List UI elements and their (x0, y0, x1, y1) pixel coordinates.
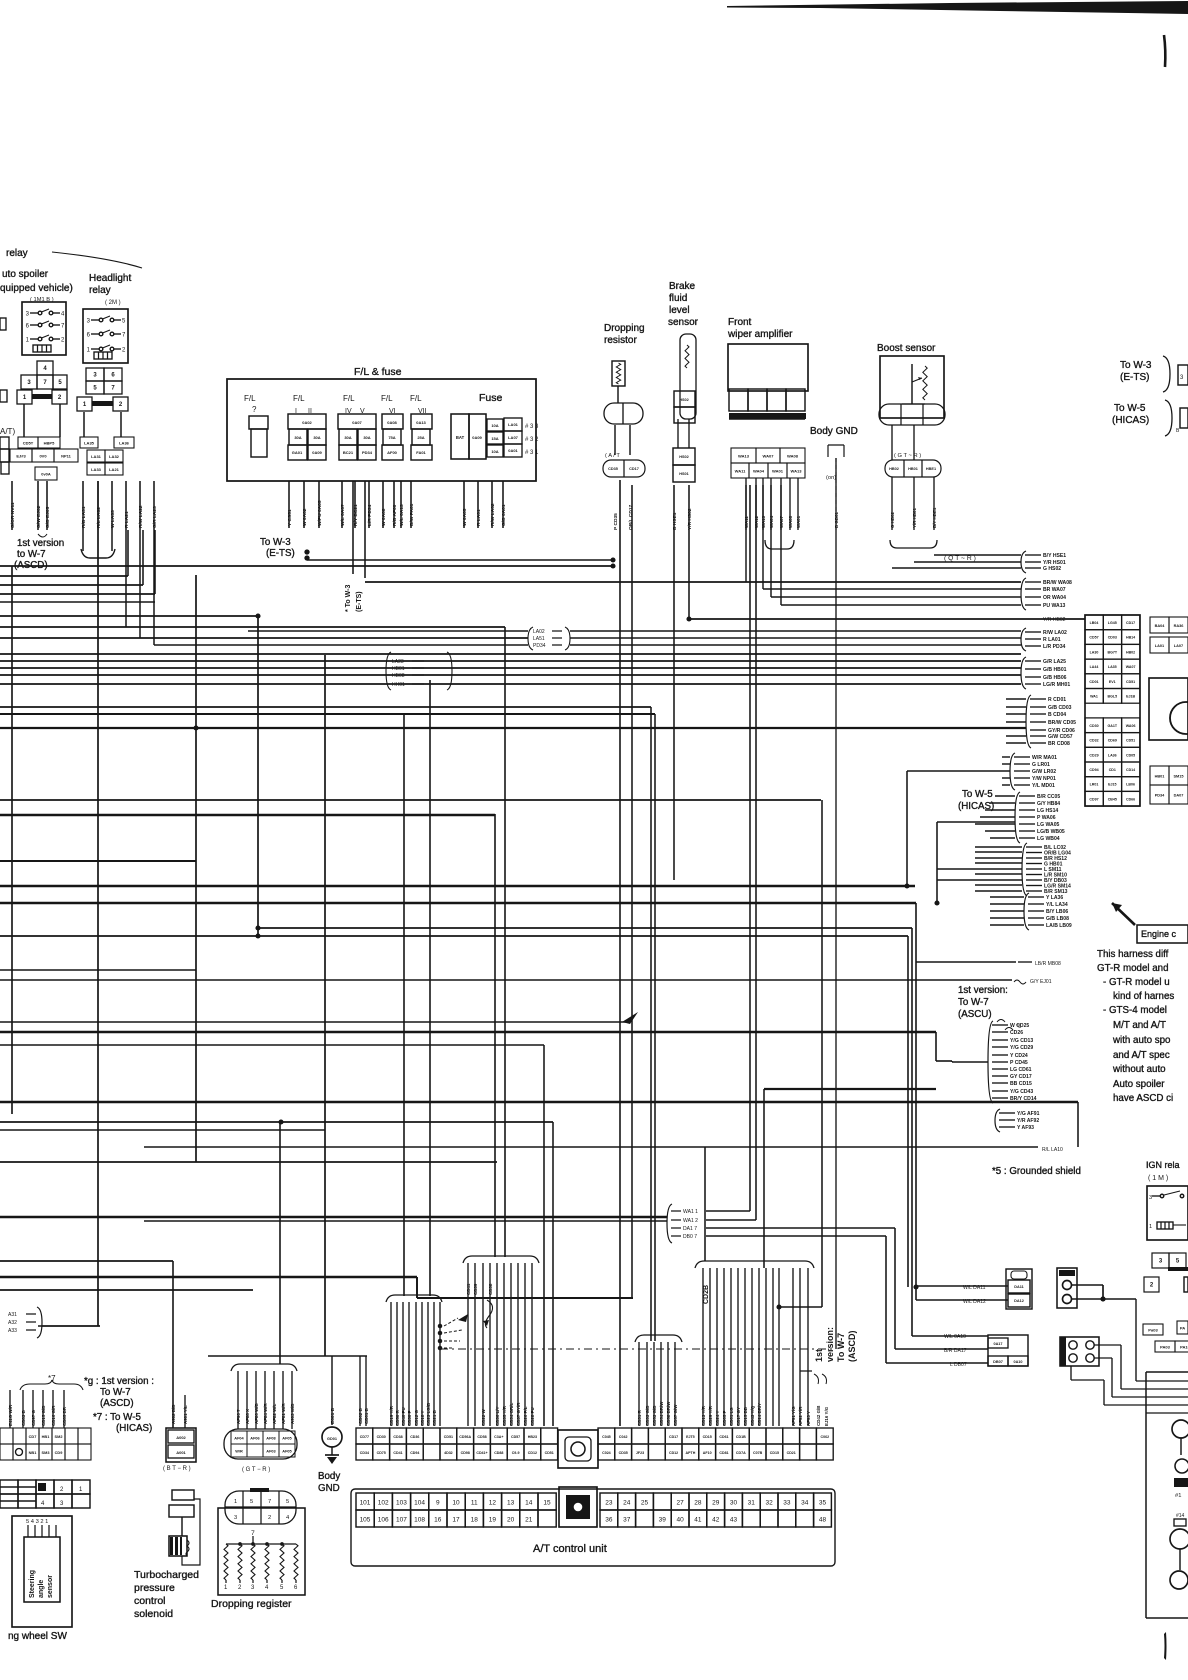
svg-text:CD29: CD29 (1089, 753, 1098, 757)
svg-text:CD41+: CD41+ (476, 1451, 487, 1455)
svg-text:CD30 P: CD30 P (407, 1410, 412, 1426)
svg-text:W/L DA12: W/L DA12 (963, 1299, 986, 1305)
svg-text:AF92 Y/R: AF92 Y/R (798, 1406, 803, 1426)
svg-text:W 0A02: W 0A02 (302, 508, 308, 526)
svg-text:DA1 7: DA1 7 (683, 1226, 697, 1232)
wire V x=143 (142, 530, 144, 585)
svg-text:CD05: CD05 (1126, 753, 1135, 757)
svg-text:Body GND: Body GND (810, 426, 858, 437)
svg-text:CD2B: CD2B (703, 1285, 710, 1304)
wire H y=885 (975, 884, 1022, 886)
svg-text:HS02: HS02 (679, 455, 689, 459)
wire H y=861 (0, 860, 196, 862)
svg-text:HB01: HB01 (908, 467, 918, 471)
svg-text:A/T control unit: A/T control unit (533, 1543, 607, 1555)
svg-text:LG WA05: LG WA05 (1037, 822, 1060, 828)
wire H y=1211 (706, 1210, 750, 1212)
svg-text:5: 5 (286, 1499, 289, 1505)
svg-text:CD57: CD57 (1089, 636, 1098, 640)
svg-text:A902 B/B: A902 B/B (171, 1405, 176, 1424)
connector strip CD row 1 and 2 (356, 1428, 373, 1444)
svg-text:AF86 W/B: AF86 W/B (254, 1403, 259, 1424)
svg-text:( 2M ): ( 2M ) (105, 300, 121, 306)
svg-text:AF10: AF10 (703, 1451, 712, 1455)
svg-text:Y/R HB02: Y/R HB02 (1043, 617, 1066, 623)
svg-text:C9-9: C9-9 (512, 1451, 520, 1455)
svg-text:14: 14 (525, 1500, 533, 1507)
svg-text:LA23: LA23 (392, 659, 404, 665)
cable bundle 4 pins (702, 1268, 704, 1426)
svg-text:CD94: CD94 (1089, 768, 1098, 772)
svg-text:F/L: F/L (244, 394, 256, 403)
svg-text:To W-3: To W-3 (260, 537, 291, 548)
wire H y=970 (0, 969, 196, 971)
wire wiper amp pins (745, 478, 747, 530)
svg-text:(HICAS): (HICAS) (958, 801, 994, 812)
svg-text:PA03: PA03 (1160, 1344, 1171, 1349)
wire H y=1326 (38, 1325, 100, 1327)
svg-text:RA36: RA36 (1174, 624, 1184, 628)
wire H y=847 (975, 846, 1022, 848)
svg-text:CD94: CD94 (410, 1451, 419, 1455)
wire H y=936 (0, 935, 908, 937)
stub wires with labels below F/L and fuse box (288, 481, 290, 528)
svg-text:CD38: CD38 (393, 1435, 402, 1439)
wire H y=736 (1006, 735, 1026, 737)
svg-text:CD14: CD14 (1126, 768, 1135, 772)
svg-text:A31: A31 (8, 1312, 17, 1318)
svg-text:B/Y HSE1: B/Y HSE1 (1043, 553, 1066, 559)
svg-text:Turbocharged: Turbocharged (134, 1569, 199, 1581)
wire H y=631 (570, 630, 1021, 632)
wire H y=800 (0, 799, 821, 801)
svg-text:HB14: HB14 (1126, 636, 1135, 640)
wire group WA08/WA07/WA04/WA13 (1021, 578, 1026, 610)
svg-text:W 0A05: W 0A05 (462, 508, 468, 526)
svg-text:WA1 2: WA1 2 (683, 1218, 698, 1224)
wire H y=757 (1002, 756, 1010, 758)
wire pins E41G..CD85 bottom left (9, 1390, 11, 1428)
wire H y=778 (1002, 777, 1010, 779)
scan artifact tick top right (1164, 35, 1165, 67)
svg-text:17: 17 (452, 1517, 460, 1524)
svg-text:CD16 G/R: CD16 G/R (51, 1405, 56, 1426)
svg-text:15: 15 (543, 1500, 551, 1507)
wire H y=903 (0, 902, 916, 905)
svg-text:( 1 M ): ( 1 M ) (1148, 1175, 1168, 1182)
wire H y=1089 (764, 1088, 936, 1090)
relay K3 IGN relay box (1147, 1186, 1188, 1240)
svg-text:CD12 G: CD12 G (414, 1409, 419, 1426)
svg-text:*g : 1st version :: *g : 1st version : (84, 1376, 154, 1387)
cable bracket over AF pins (231, 1364, 297, 1371)
svg-text:G/B LB08: G/B LB08 (1046, 916, 1069, 922)
black connector bar (1174, 1478, 1188, 1487)
svg-text:LG HS14: LG HS14 (1037, 808, 1058, 814)
shield hook symbols (458, 1314, 468, 1322)
cable bundle 3 pins (638, 1342, 640, 1426)
svg-text:30A: 30A (363, 435, 370, 440)
wire V x=553 (552, 1122, 554, 1426)
svg-text:CD54 BR/W: CD54 BR/W (659, 1401, 664, 1426)
wire V x=763 (762, 485, 764, 589)
svg-text:AF96 7: AF96 7 (236, 1409, 241, 1424)
svg-text:relay: relay (6, 248, 28, 259)
svg-text:G/B HB06: G/B HB06 (1043, 675, 1067, 681)
wire group CC05..WB04 (1015, 792, 1020, 843)
svg-text:CD15: CD15 (770, 1451, 779, 1455)
svg-text:(HICAS): (HICAS) (116, 1423, 152, 1434)
wire CD35 pin with label (614, 425, 616, 455)
wire H y=714 (1006, 713, 1026, 715)
wire group CD25..CD14 grounded shield (997, 1020, 1013, 1031)
connector oval HB02/HB01/HBE1 (885, 460, 941, 477)
svg-text:To W-7: To W-7 (100, 1387, 131, 1398)
svg-text:106: 106 (378, 1517, 389, 1524)
svg-text:Y/G CD43: Y/G CD43 (1010, 1089, 1033, 1095)
wire loop from solenoid (182, 1499, 200, 1565)
wire V x=936 (935, 1032, 937, 1061)
svg-text:43: 43 (730, 1517, 738, 1524)
wire V x=1103 (1102, 1285, 1104, 1299)
svg-text:AF06: AF06 (250, 1436, 259, 1440)
svg-text:HB02: HB02 (1126, 650, 1135, 654)
svg-text:CD41: CD41 (466, 1283, 471, 1295)
A/T control unit numbered pin row 2 right (600, 1510, 618, 1527)
connector with four circle terminals (1060, 1337, 1099, 1366)
svg-text:Y/W NP01: Y/W NP01 (1032, 776, 1056, 782)
junction dots (255, 613, 260, 618)
svg-text:Y CS51: Y CS51 (287, 509, 293, 526)
svg-text:CD26: CD26 (1010, 1030, 1023, 1036)
svg-text:R/L LA32: R/L LA32 (96, 507, 102, 528)
svg-text:32: 32 (765, 1500, 773, 1507)
svg-text:CD42 G/B: CD42 G/B (816, 1406, 821, 1426)
wire H y=925 (990, 924, 1024, 926)
svg-text:15A: 15A (491, 436, 498, 441)
svg-text:BR CD08: BR CD08 (1048, 741, 1070, 747)
svg-text:BR/W CD05: BR/W CD05 (1048, 720, 1076, 726)
wire H y=886 (0, 885, 915, 888)
wire H y=1236 (706, 1235, 886, 1237)
wire H y=1336 (912, 1335, 988, 1337)
svg-text:Boost sensor: Boost sensor (877, 343, 936, 354)
wire stubs from relay footprints to connectors (23, 404, 25, 437)
svg-text:B/Y HBE1: B/Y HBE1 (932, 507, 937, 528)
wire H y=796 (995, 795, 1015, 797)
connector strip bottom-left 1 (0, 1428, 13, 1444)
svg-text:12: 12 (489, 1500, 497, 1507)
svg-text:LA02: LA02 (533, 629, 545, 635)
svg-text:F/L: F/L (293, 394, 305, 403)
svg-text:42: 42 (712, 1517, 720, 1524)
wire V x=620 (619, 480, 621, 1426)
svg-text:WA06: WA06 (1126, 724, 1136, 728)
svg-text:LA36: LA36 (119, 440, 130, 445)
wire H y=771 (907, 770, 1010, 772)
wire V x=771 (770, 485, 772, 597)
svg-text:AF91 Y/G: AF91 Y/G (791, 1406, 796, 1426)
svg-text:WA13: WA13 (790, 468, 802, 473)
svg-text:BC21: BC21 (343, 450, 354, 455)
svg-text:BA04: BA04 (1155, 624, 1166, 628)
svg-text:CD17: CD17 (629, 467, 639, 471)
svg-text:resistor: resistor (604, 335, 637, 346)
svg-text:W/R: W/R (235, 1449, 243, 1453)
svg-text:(E-TS): (E-TS) (1120, 372, 1149, 383)
svg-text:W/R MA01: W/R MA01 (1032, 755, 1057, 761)
connector boxes DA17 / DB07 0A10 (988, 1335, 1028, 1366)
svg-text:LA44: LA44 (1090, 665, 1099, 669)
svg-text:CD97 G: CD97 G (31, 1409, 36, 1426)
svg-text:WA1: WA1 (1090, 694, 1098, 698)
wire V x=655 (654, 714, 656, 1341)
svg-text:CD53 G/B: CD53 G/B (652, 1406, 657, 1426)
brake fluid level sensor connector cells (674, 391, 695, 407)
wire group LA02/LA01/PD34 (1021, 628, 1026, 651)
wire V x=895 (894, 1228, 896, 1349)
svg-text:CD35 Y/R: CD35 Y/R (502, 1405, 507, 1426)
svg-text:solenoid: solenoid (134, 1608, 173, 1620)
svg-text:0A02: 0A02 (302, 420, 312, 425)
svg-text:0A07: 0A07 (352, 420, 362, 425)
svg-text:F/L: F/L (410, 394, 422, 403)
svg-text:0v0A: 0v0A (41, 471, 51, 476)
svg-text:23: 23 (605, 1500, 613, 1507)
svg-text:CD41: CD41 (393, 1451, 402, 1455)
wire E001 ground pin (331, 1356, 333, 1425)
svg-text:angle: angle (38, 1580, 45, 1598)
wire V x=280 (279, 1122, 281, 1364)
wire H y=785 (1002, 784, 1010, 786)
svg-text:CD17: CD17 (669, 1435, 678, 1439)
svg-text:OR WA04: OR WA04 (1043, 595, 1066, 601)
svg-text:29: 29 (712, 1500, 720, 1507)
svg-text:CD61 LG: CD61 LG (729, 1407, 734, 1426)
svg-text:0A09: 0A09 (312, 450, 322, 455)
wire pins AF91 AF92 AF93 (792, 1268, 794, 1426)
left edge partial cells (0, 318, 6, 330)
svg-text:CD15: CD15 (703, 1435, 712, 1439)
wire H y=582 (365, 581, 1021, 583)
svg-text:B/W FA01: B/W FA01 (409, 503, 415, 526)
wire V x=258 (257, 616, 259, 936)
svg-text:CB45: CB45 (1108, 797, 1117, 801)
svg-text:CD21: CD21 (787, 1451, 796, 1455)
svg-text:E41G W/R: E41G W/R (8, 1404, 13, 1426)
svg-text:LG/B WB05: LG/B WB05 (1037, 829, 1065, 835)
svg-text:CD51: CD51 (1126, 680, 1135, 684)
wire H y=863 (975, 862, 1022, 864)
wire V x=1078 (1077, 1102, 1079, 1147)
wire H y=810 (985, 809, 1015, 811)
svg-text:L/R PD34: L/R PD34 (1043, 644, 1066, 650)
ground symbol GD01 body GND (322, 1427, 342, 1447)
svg-text:LB04: LB04 (1090, 621, 1099, 625)
svg-text:34: 34 (801, 1500, 809, 1507)
svg-text:28: 28 (694, 1500, 702, 1507)
svg-text:Pa03: Pa03 (1148, 1327, 1158, 1332)
A/T control unit outer box (351, 1489, 835, 1566)
wire V x=98 (97, 530, 99, 1326)
svg-text:CD21 B: CD21 B (432, 1410, 437, 1426)
svg-text:DA12: DA12 (1014, 1299, 1024, 1303)
wire H y=661 (0, 660, 1021, 662)
svg-text:PU WA13: PU WA13 (1043, 603, 1066, 609)
svg-text:102: 102 (378, 1500, 389, 1507)
svg-text:HB1: HB1 (42, 1435, 51, 1439)
svg-text:control: control (134, 1595, 166, 1607)
front wiper amplifier connector row (729, 389, 748, 411)
svg-text:CD5T: CD5T (23, 440, 34, 445)
svg-text:CD32: CD32 (1089, 739, 1098, 743)
svg-text:DA07: DA07 (1174, 793, 1184, 797)
svg-text:HB01: HB01 (392, 666, 405, 672)
svg-text:CD15 G/B: CD15 G/B (41, 1406, 46, 1426)
svg-text:CD1B: CD1B (736, 1435, 746, 1439)
svg-text:W/L 0A07: W/L 0A07 (340, 504, 346, 526)
wire V x=128 (127, 530, 129, 576)
svg-text:Headlight: Headlight (89, 273, 131, 284)
wire H y=1147 (144, 1146, 1038, 1148)
wire group CD01..CD08 (1026, 695, 1031, 748)
svg-text:Body: Body (318, 1471, 340, 1482)
svg-text:CD75: CD75 (377, 1451, 386, 1455)
svg-text:CD85 BR: CD85 BR (62, 1406, 67, 1426)
svg-text:AF93 Y: AF93 Y (806, 1411, 811, 1426)
svg-text:LB/R MB08: LB/R MB08 (1035, 961, 1061, 967)
dropping register box (218, 1508, 305, 1595)
svg-text:M/T and A/T: M/T and A/T (1113, 1020, 1166, 1031)
svg-text:G/B EJ05: G/B EJ05 (45, 506, 51, 528)
wire H y=684 (0, 683, 1021, 685)
wire H y=566 (0, 565, 613, 567)
svg-text:A903 W/B: A903 W/B (290, 1404, 295, 1424)
wire group LA36..LB09 (1024, 893, 1029, 930)
svg-text:Y CD24: Y CD24 (1010, 1053, 1028, 1059)
svg-text:(on): (on) (826, 475, 836, 481)
wire H y=605 (781, 604, 1021, 606)
connector pin footprint for relay K2 (86, 368, 104, 381)
wire H y=858 (975, 857, 1022, 859)
svg-text:CD13 Y/R: CD13 Y/R (701, 1405, 706, 1426)
wire H y=589 (763, 588, 1021, 590)
svg-text:Y/L MD01: Y/L MD01 (1032, 783, 1055, 789)
wire H y=928 (258, 927, 912, 929)
svg-text:G/Y HB84: G/Y HB84 (1037, 801, 1060, 807)
wire V x=417 (416, 1277, 418, 1298)
engine control unit pin grid lower right cells (1150, 766, 1169, 785)
mid-page label group LA02/LA51/PD34 (528, 627, 533, 650)
svg-text:- GT-R model u: - GT-R model u (1103, 977, 1170, 988)
svg-text:HBP5: HBP5 (44, 440, 55, 445)
resistors 1-6 of dropping register (224, 1544, 228, 1580)
svg-text:W CD25: W CD25 (1010, 1023, 1029, 1029)
svg-text:R/B LA31: R/B LA31 (81, 506, 87, 528)
svg-text:P WA06: P WA06 (1037, 815, 1056, 821)
svg-text:F/L: F/L (381, 394, 393, 403)
svg-text:C07B: C07B (753, 1451, 763, 1455)
svg-text:1st: 1st (814, 1349, 824, 1362)
svg-text:EV1: EV1 (1109, 680, 1116, 684)
svg-text:Y/R AF92: Y/R AF92 (1017, 1118, 1039, 1124)
connector cells Pa03 right edge (1143, 1324, 1163, 1335)
svg-text:CD35: CD35 (608, 467, 618, 471)
svg-text:41: 41 (694, 1517, 702, 1524)
engine control unit pin grid upper right cells (1150, 617, 1169, 633)
front wiper amplifier box (728, 344, 808, 391)
svg-text:WA04: WA04 (753, 468, 765, 473)
svg-text:2: 2 (268, 1515, 271, 1521)
svg-text:kind of harnes: kind of harnes (1113, 991, 1174, 1002)
svg-text:G/B CD03: G/B CD03 (1048, 705, 1072, 711)
svg-text:P CD45: P CD45 (1010, 1060, 1028, 1066)
svg-text:CD61: CD61 (719, 1435, 728, 1439)
wire H y=654 (0, 653, 1021, 655)
wire H y=1307 (779, 1306, 822, 1308)
svg-text:B/Y LB06: B/Y LB06 (1046, 909, 1068, 915)
stub wires with labels below top-left connectors (11, 481, 13, 530)
svg-text:36: 36 (605, 1517, 613, 1524)
svg-text:( G T − R ): ( G T − R ) (242, 1467, 270, 1473)
svg-text:24: 24 (623, 1500, 631, 1507)
svg-text:WA11: WA11 (735, 468, 747, 473)
dropping register connector oval (225, 1491, 296, 1524)
svg-text:CD38: CD38 (488, 1283, 493, 1295)
svg-text:CD81: CD81 (719, 1451, 728, 1455)
connector with two circle terminals (1057, 1268, 1077, 1308)
svg-text:0A13: 0A13 (416, 420, 426, 425)
svg-text:1st version:: 1st version: (958, 985, 1008, 996)
svg-text:CD19 Y/R: CD19 Y/R (389, 1405, 394, 1426)
wire V x=430 (429, 680, 431, 1296)
wire H y=822 (937, 821, 1015, 823)
wire H y=1363 (886, 1362, 988, 1364)
wire brake sensor pins (677, 419, 679, 448)
svg-text:#14: #14 (1176, 1513, 1185, 1519)
wire H y=1261 (0, 1260, 173, 1262)
svg-text:CD36 L/Y: CD36 L/Y (495, 1406, 500, 1426)
svg-text:CD33 G/B: CD33 G/B (645, 1406, 650, 1426)
svg-text:GY CD17: GY CD17 (1010, 1074, 1032, 1080)
cable bundle 3 bracket (CD31..CD57) (635, 1335, 682, 1342)
svg-text:CD58: CD58 (477, 1435, 486, 1439)
svg-text:HB01: HB01 (1155, 774, 1166, 778)
svg-text:LA01: LA01 (1155, 644, 1165, 648)
svg-text:Y/L LA34: Y/L LA34 (1046, 902, 1068, 908)
svg-text:CD24 Y: CD24 Y (715, 1411, 720, 1426)
svg-text:16: 16 (434, 1517, 442, 1524)
svg-text:CD15 BB: CD15 BB (743, 1407, 748, 1426)
svg-text:CD65 P: CD65 P (722, 1410, 727, 1426)
svg-text:CD17: CD17 (1126, 621, 1135, 625)
fuse block BAT cells (451, 414, 469, 459)
svg-text:CD35: CD35 (619, 1451, 628, 1455)
wire H y=1130 (0, 1129, 325, 1131)
wire H y=897 (990, 896, 1024, 898)
svg-text:OR/L CD17: OR/L CD17 (628, 504, 634, 530)
svg-text:F/L: F/L (343, 394, 355, 403)
svg-text:HS02: HS02 (679, 398, 689, 402)
svg-text:To W-3: To W-3 (1120, 360, 1152, 371)
svg-text:AF08: AF08 (266, 1436, 276, 1440)
wire H y=831 (985, 830, 1015, 832)
svg-text:Engine c: Engine c (1141, 929, 1177, 939)
svg-text:AF05: AF05 (282, 1436, 292, 1440)
svg-text:WA01: WA01 (772, 468, 784, 473)
svg-text:W/L 0A13: W/L 0A13 (399, 504, 405, 526)
svg-text:R/B AF00: R/B AF00 (392, 504, 398, 526)
